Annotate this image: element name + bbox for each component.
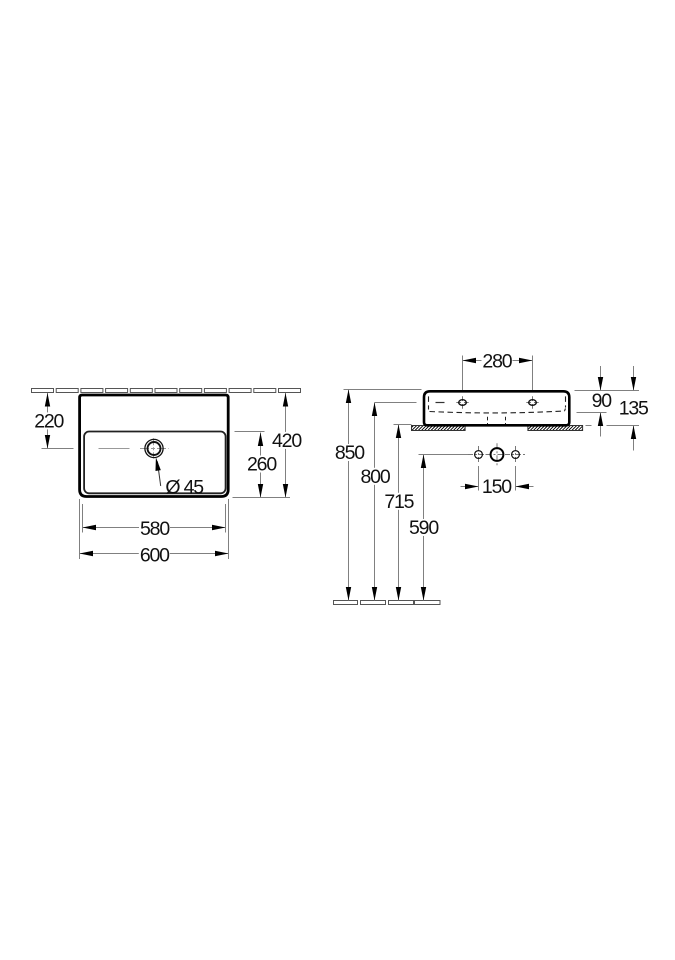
svg-text:600: 600 bbox=[140, 544, 170, 566]
svg-text:590: 590 bbox=[409, 517, 439, 539]
svg-text:420: 420 bbox=[272, 430, 302, 452]
svg-text:715: 715 bbox=[384, 491, 414, 513]
svg-text:220: 220 bbox=[34, 411, 64, 433]
svg-text:850: 850 bbox=[335, 442, 365, 464]
svg-text:150: 150 bbox=[482, 476, 512, 498]
svg-text:Ø 45: Ø 45 bbox=[165, 476, 204, 498]
svg-text:580: 580 bbox=[140, 518, 170, 540]
svg-text:800: 800 bbox=[361, 466, 391, 488]
svg-text:260: 260 bbox=[247, 454, 277, 476]
svg-text:280: 280 bbox=[482, 351, 512, 373]
svg-text:90: 90 bbox=[592, 390, 613, 412]
svg-text:135: 135 bbox=[619, 397, 649, 419]
